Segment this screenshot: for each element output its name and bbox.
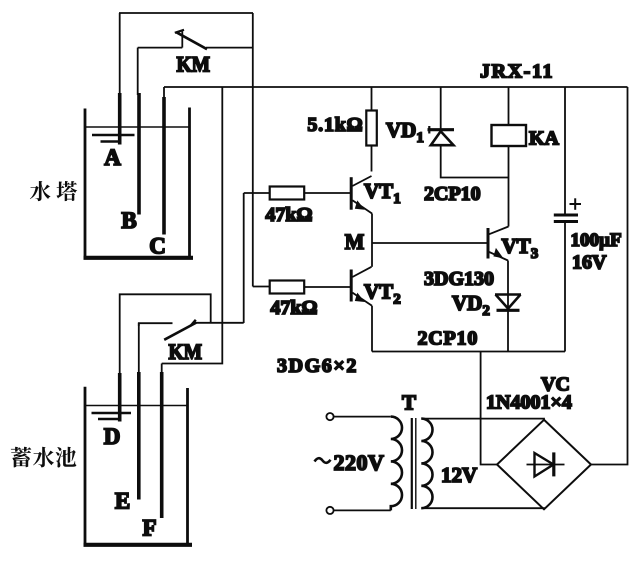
svg-text:VD1: VD1	[386, 118, 424, 146]
svg-text:100µF: 100µF	[571, 230, 622, 251]
svg-text:F: F	[142, 516, 156, 541]
svg-text:3DG6×2: 3DG6×2	[277, 355, 358, 377]
svg-text:E: E	[115, 489, 130, 514]
svg-text:VT1: VT1	[364, 179, 401, 207]
label ~220V	[315, 458, 331, 463]
transformer T secondary wires to bridge	[421, 419, 544, 420]
wire node column x253 (A/KM to 47k lower)	[252, 13, 254, 287]
emitter bottom bus	[372, 351, 565, 353]
wire B electrode riser	[137, 48, 139, 95]
svg-text:C: C	[149, 234, 166, 259]
node M wire to VT3 base	[372, 242, 488, 244]
resistor 47k lower (to VT2 base)	[253, 281, 350, 294]
wire electrode D riser	[120, 294, 211, 375]
transformer T core	[411, 418, 413, 509]
diode VD2 (in emitter, cathode down)	[495, 295, 521, 352]
svg-text:VT3: VT3	[502, 234, 539, 262]
svg-text:12V: 12V	[441, 463, 477, 487]
svg-text:JRX-11: JRX-11	[480, 61, 554, 83]
label 水塔	[30, 181, 77, 201]
transistor VT2	[351, 243, 372, 352]
svg-text:220V: 220V	[334, 450, 385, 475]
svg-text:KM: KM	[169, 339, 203, 364]
svg-text:KA: KA	[529, 128, 560, 150]
svg-text:1N4001×4: 1N4001×4	[486, 392, 572, 414]
wire bus to electrode F	[162, 87, 223, 364]
top supply bus JRX-11	[164, 86, 628, 88]
svg-text:VT2: VT2	[364, 280, 401, 308]
svg-text:47kΩ: 47kΩ	[270, 297, 317, 319]
resistor 47k upper (to VT1 base)	[244, 187, 350, 200]
svg-text:47kΩ: 47kΩ	[265, 204, 312, 226]
diode VD1 (freewheel, cathode up)	[428, 87, 509, 178]
svg-text:16V: 16V	[572, 252, 607, 274]
wire right bus from bridge to top	[591, 87, 628, 465]
electrode F	[161, 364, 163, 374]
transistor VT3	[488, 227, 509, 294]
svg-text:2CP10: 2CP10	[418, 328, 479, 350]
label 蓄水池	[11, 447, 77, 468]
svg-text:2CP10: 2CP10	[424, 183, 481, 205]
relay KA	[492, 87, 527, 227]
svg-text:VD2: VD2	[452, 291, 490, 319]
electrode C	[162, 97, 166, 235]
transformer T primary wires	[334, 416, 391, 418]
svg-text:A: A	[104, 145, 121, 170]
electrode E	[138, 323, 140, 373]
electrode D with water-surface marks	[92, 373, 132, 422]
wire top loop horizontal (A electrode to node)	[119, 12, 253, 14]
svg-text:KM: KM	[176, 51, 210, 76]
resistor 5.1k	[366, 87, 377, 172]
wire A electrode riser	[119, 13, 121, 95]
svg-text:B: B	[121, 208, 136, 233]
switch KM (water tower contact)	[138, 30, 253, 49]
svg-text:M: M	[345, 229, 365, 254]
electrode A with water-surface marks	[92, 93, 135, 145]
transformer T primary coil	[391, 417, 402, 511]
transformer T primary terminals	[326, 413, 333, 514]
svg-text:3DG130: 3DG130	[424, 268, 494, 290]
capacitor 100uF electrolytic	[554, 87, 581, 352]
wire bottom bus to bridge left vertex	[481, 352, 497, 465]
transformer T secondary coil	[421, 419, 432, 509]
tank water tower	[84, 108, 194, 258]
transistor VT1	[351, 176, 372, 243]
bridge rectifier VC	[497, 420, 591, 510]
svg-text:D: D	[104, 424, 121, 449]
wire C electrode to bus	[163, 87, 165, 100]
wire 47k upper left lead to reservoir KM	[243, 193, 245, 323]
switch KM (reservoir contact)	[139, 320, 244, 340]
tank reservoir	[84, 387, 193, 545]
electrode B	[137, 93, 141, 215]
svg-text:T: T	[402, 391, 416, 415]
svg-text:5.1kΩ: 5.1kΩ	[307, 114, 363, 136]
